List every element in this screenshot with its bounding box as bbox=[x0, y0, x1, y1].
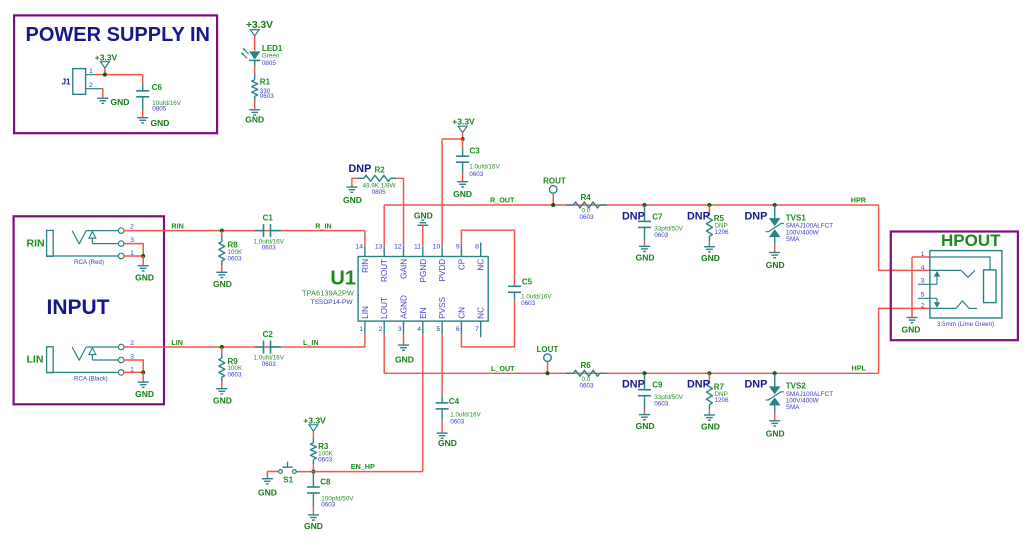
wire PVDD rail bbox=[442, 139, 463, 246]
ground (R7) bbox=[704, 414, 715, 416]
svg-text:DNP: DNP bbox=[687, 379, 710, 391]
jack pin 3 stub bbox=[918, 283, 937, 285]
svg-text:4: 4 bbox=[921, 265, 925, 272]
svg-text:C5: C5 bbox=[522, 278, 533, 287]
svg-text:GND: GND bbox=[135, 389, 154, 399]
ground (C8) bbox=[308, 514, 319, 516]
wire HPR to jack pin 4 bbox=[879, 205, 930, 270]
svg-text:GND: GND bbox=[304, 521, 323, 531]
svg-text:0603: 0603 bbox=[580, 214, 595, 221]
svg-text:LIN: LIN bbox=[171, 338, 183, 347]
wire TVS2 to ground bbox=[774, 413, 776, 420]
hpout box bbox=[891, 232, 1018, 341]
wire LIN pin1 to junction bbox=[124, 371, 143, 373]
wire junction to ground (RIN) bbox=[142, 256, 144, 265]
U1 pin 4 (EN) stub bbox=[422, 321, 424, 334]
svg-text:1.0ufd/16V: 1.0ufd/16V bbox=[469, 164, 500, 171]
RCA jack RIN bbox=[47, 230, 54, 256]
ground (TVS1) bbox=[769, 252, 780, 254]
wire C3 to ground bbox=[462, 174, 464, 181]
svg-text:0603: 0603 bbox=[321, 502, 336, 509]
capacitor C6 bbox=[142, 75, 144, 84]
capacitor C8 bbox=[312, 472, 314, 487]
ground (AGND) bbox=[398, 344, 409, 346]
svg-text:DNP: DNP bbox=[622, 210, 645, 222]
svg-text:GND: GND bbox=[636, 253, 655, 263]
svg-text:POWER SUPPLY IN: POWER SUPPLY IN bbox=[26, 24, 211, 46]
resistor R8 bbox=[221, 231, 223, 237]
node EN_HP junction bbox=[311, 470, 315, 474]
wire C4 to ground bbox=[441, 420, 443, 433]
wire J1 pin2 to ground bbox=[102, 89, 103, 98]
U1 pin 3 (AGND) stub bbox=[403, 321, 405, 334]
svg-text:LIN: LIN bbox=[27, 354, 44, 366]
wire R7 to ground bbox=[708, 409, 710, 414]
node RIN ground junction bbox=[141, 254, 145, 258]
svg-text:GND: GND bbox=[343, 195, 362, 205]
resistor R2 (DNP) bbox=[352, 178, 358, 186]
wire C7 to ground bbox=[644, 241, 646, 246]
switch S1 bbox=[279, 470, 283, 474]
svg-text:GND: GND bbox=[414, 210, 433, 220]
svg-text:ROUT: ROUT bbox=[380, 259, 389, 282]
node ROUT junction bbox=[551, 203, 555, 207]
svg-text:GND: GND bbox=[111, 97, 130, 107]
svg-text:GND: GND bbox=[766, 260, 785, 270]
svg-text:NC: NC bbox=[477, 307, 486, 319]
node TVS2 junction bbox=[773, 371, 777, 375]
jack pin 4 tip contact bbox=[930, 269, 961, 271]
jack pin 1 wire bbox=[912, 256, 930, 258]
svg-text:Green: Green bbox=[262, 53, 280, 60]
svg-text:1206: 1206 bbox=[715, 229, 730, 236]
svg-text:C3: C3 bbox=[470, 146, 481, 155]
J1 pin 2 bbox=[86, 88, 102, 90]
svg-text:+3.3V: +3.3V bbox=[452, 116, 475, 126]
svg-text:PGND: PGND bbox=[419, 259, 428, 283]
ground (RIN) bbox=[138, 265, 149, 267]
node R9 junction bbox=[220, 345, 224, 349]
svg-text:GND: GND bbox=[151, 118, 170, 128]
node PVDD junction bbox=[461, 137, 465, 141]
svg-text:GND: GND bbox=[701, 421, 720, 431]
svg-text:GND: GND bbox=[902, 324, 921, 334]
ground (C9) bbox=[639, 414, 650, 416]
wire R2 to pin 12 GAIN bbox=[397, 178, 404, 246]
U1 pin 8 (NC) stub bbox=[480, 243, 482, 257]
ground (C7) bbox=[639, 245, 650, 247]
svg-text:GND: GND bbox=[213, 279, 232, 289]
ground (LIN) bbox=[138, 381, 149, 383]
wire RIN net bbox=[124, 230, 365, 232]
svg-text:2: 2 bbox=[130, 224, 134, 231]
svg-text:2: 2 bbox=[130, 340, 134, 347]
capacitor C9 (DNP) bbox=[644, 373, 646, 389]
wire AGND to ground bbox=[403, 334, 405, 344]
node R8 junction bbox=[220, 229, 224, 233]
wire L_OUT net bbox=[384, 372, 878, 374]
svg-text:0603: 0603 bbox=[521, 300, 536, 307]
J1 pin 1 bbox=[86, 74, 96, 76]
svg-text:14: 14 bbox=[356, 244, 364, 251]
U1 pin 11 (PGND) stub bbox=[422, 246, 424, 256]
wire R3 to EN_HP node bbox=[312, 464, 314, 472]
wire CP to C5 bbox=[461, 230, 514, 286]
svg-text:0805: 0805 bbox=[152, 106, 167, 113]
ground (R9) bbox=[216, 388, 227, 390]
svg-text:C1: C1 bbox=[263, 213, 274, 222]
svg-text:0603: 0603 bbox=[450, 419, 465, 426]
U1 pin 5 (PVSS) stub bbox=[441, 321, 443, 334]
svg-text:TSSOP14-PW: TSSOP14-PW bbox=[311, 299, 354, 306]
svg-text:RIN: RIN bbox=[171, 221, 183, 230]
connector J1 bbox=[73, 69, 86, 95]
resistor R6 bbox=[566, 372, 573, 374]
svg-text:ROUT: ROUT bbox=[543, 176, 566, 185]
jack pin 2 ring contact bbox=[930, 307, 956, 309]
headphone jack J2 body bbox=[930, 251, 1002, 318]
RIN jack pin 3 bbox=[118, 241, 124, 247]
svg-text:EN: EN bbox=[419, 307, 428, 318]
svg-text:0603: 0603 bbox=[262, 361, 277, 368]
svg-text:DNP: DNP bbox=[622, 379, 645, 391]
svg-text:TVS1: TVS1 bbox=[786, 213, 807, 222]
svg-text:3: 3 bbox=[921, 278, 925, 285]
svg-text:DNP: DNP bbox=[349, 163, 372, 175]
svg-text:C8: C8 bbox=[320, 478, 331, 487]
wire S1 to ground bbox=[267, 472, 278, 479]
svg-text:+3.3V: +3.3V bbox=[303, 416, 326, 426]
svg-text:10: 10 bbox=[433, 244, 441, 251]
svg-text:GND: GND bbox=[701, 253, 720, 263]
svg-text:LOUT: LOUT bbox=[537, 345, 559, 354]
svg-text:1: 1 bbox=[359, 326, 363, 333]
svg-text:GND: GND bbox=[245, 115, 264, 125]
jack pin 5 stub bbox=[918, 297, 937, 299]
svg-text:DNP: DNP bbox=[745, 379, 768, 391]
svg-text:2: 2 bbox=[379, 326, 383, 333]
wire +3.3V to R3 bbox=[312, 431, 314, 438]
U1 pin 14 (RIN) stub bbox=[364, 246, 366, 256]
capacitor C2 bbox=[255, 346, 264, 348]
wire R5 to ground bbox=[708, 241, 710, 246]
jack pin 3 arrow bbox=[936, 277, 938, 285]
resistor R1 bbox=[252, 80, 258, 97]
ground (R1) bbox=[249, 109, 260, 111]
LED D1 LED1 bbox=[249, 51, 260, 59]
node LIN ground junction bbox=[141, 370, 145, 374]
svg-text:7: 7 bbox=[475, 326, 479, 333]
power supply in box bbox=[14, 15, 217, 133]
svg-text:1206: 1206 bbox=[715, 397, 730, 404]
ground (C4) bbox=[437, 432, 448, 434]
svg-text:J1: J1 bbox=[62, 78, 71, 87]
wire R_IN into pin 14 bbox=[364, 231, 366, 247]
svg-text:L_IN: L_IN bbox=[303, 338, 319, 347]
svg-text:0603: 0603 bbox=[654, 401, 669, 408]
svg-text:PVSS: PVSS bbox=[438, 296, 447, 318]
ground (R8) bbox=[216, 271, 227, 273]
RCA jack LIN bbox=[47, 347, 54, 373]
node R5 junction bbox=[707, 203, 711, 207]
jack pin 5 arrow bbox=[936, 298, 938, 302]
U1 pin 1 (LIN) stub bbox=[364, 321, 366, 334]
wire R1 to ground bbox=[254, 101, 256, 110]
RIN jack pin 1 bbox=[118, 253, 124, 259]
wire R_OUT net bbox=[384, 204, 878, 206]
wire EN_HP net bbox=[296, 471, 423, 473]
wire TVS1 to ground bbox=[774, 245, 776, 252]
U1 pin 12 (GAIN) stub bbox=[403, 246, 405, 256]
U1 pin 9 (CP) stub bbox=[460, 246, 462, 256]
node C7 junction bbox=[643, 203, 647, 207]
svg-text:SMA: SMA bbox=[786, 236, 800, 243]
svg-text:5: 5 bbox=[437, 326, 441, 333]
capacitor C1 bbox=[255, 230, 264, 232]
svg-text:R4: R4 bbox=[581, 193, 592, 202]
resistor R4 bbox=[566, 204, 573, 206]
svg-text:12: 12 bbox=[394, 244, 402, 251]
capacitor C7 (DNP) bbox=[644, 205, 646, 221]
wire PVSS to C4 bbox=[441, 334, 443, 395]
TVS diode TVS1 (DNP) bbox=[774, 205, 776, 218]
wire LOUT pin 2 down bbox=[383, 334, 385, 373]
svg-text:1: 1 bbox=[89, 68, 93, 75]
wire LED1 to R1 bbox=[254, 60, 256, 66]
RIN jack pin 2 bbox=[118, 228, 124, 234]
wire PGND to ground bbox=[422, 225, 424, 246]
ground (C6) bbox=[137, 117, 148, 119]
capacitor C4 bbox=[441, 395, 443, 403]
node TVS1 junction bbox=[773, 203, 777, 207]
ground (C3) bbox=[457, 181, 468, 183]
ground (HPOUT) bbox=[907, 317, 918, 319]
svg-text:GND: GND bbox=[453, 189, 472, 199]
svg-text:RCA (Red): RCA (Red) bbox=[74, 259, 104, 266]
svg-text:1: 1 bbox=[921, 251, 925, 258]
wire +3.3V to node bbox=[104, 68, 106, 75]
capacitor C5 bbox=[514, 285, 516, 287]
wire ROUT pin 13 up bbox=[383, 205, 385, 246]
svg-text:13: 13 bbox=[375, 244, 383, 251]
wire L_IN into pin 1 bbox=[364, 334, 366, 347]
svg-text:0603: 0603 bbox=[580, 383, 595, 390]
resistor R3 bbox=[312, 439, 314, 443]
wire LOUT testpoint stub bbox=[547, 362, 549, 374]
svg-text:GND: GND bbox=[395, 355, 414, 365]
svg-text:C7: C7 bbox=[652, 212, 663, 221]
svg-text:AGND: AGND bbox=[400, 295, 409, 319]
svg-text:0805: 0805 bbox=[372, 189, 387, 196]
svg-text:HPR: HPR bbox=[851, 196, 867, 205]
svg-text:6: 6 bbox=[456, 326, 460, 333]
wire J1 pin1 to C6 bbox=[95, 74, 143, 76]
svg-text:C2: C2 bbox=[263, 330, 274, 339]
wire EN_HP to pin 4 EN bbox=[422, 334, 424, 471]
svg-text:11: 11 bbox=[414, 244, 421, 251]
input box bbox=[14, 216, 164, 404]
svg-text:RIN: RIN bbox=[361, 259, 370, 273]
ground (S1) bbox=[262, 478, 273, 480]
svg-text:R_IN: R_IN bbox=[315, 221, 331, 230]
U1 pin 7 (NC) stub bbox=[480, 321, 482, 337]
U1 pin 2 (LOUT) stub bbox=[383, 321, 385, 334]
ground (R2) bbox=[346, 186, 357, 188]
svg-text:0603: 0603 bbox=[318, 456, 333, 463]
svg-text:RIN: RIN bbox=[27, 237, 45, 249]
jack sleeve contact bbox=[984, 270, 997, 303]
wire HPL to jack pin 2 bbox=[879, 308, 930, 373]
svg-text:R_OUT: R_OUT bbox=[490, 196, 515, 205]
svg-text:3.5mm (Lime Green): 3.5mm (Lime Green) bbox=[937, 321, 994, 328]
LIN jack pin 2 bbox=[118, 344, 124, 350]
LIN jack pin 3 bbox=[118, 357, 124, 363]
svg-text:CP: CP bbox=[457, 258, 466, 270]
svg-text:R6: R6 bbox=[581, 361, 592, 370]
svg-text:GND: GND bbox=[258, 487, 277, 497]
resistor R5 (DNP) bbox=[708, 205, 710, 211]
svg-text:R1: R1 bbox=[260, 78, 271, 87]
svg-text:L_OUT: L_OUT bbox=[491, 364, 515, 373]
svg-text:GAIN: GAIN bbox=[400, 259, 409, 279]
ground (TVS2) bbox=[769, 420, 780, 422]
capacitor C3 bbox=[462, 139, 464, 148]
svg-text:S1: S1 bbox=[283, 476, 293, 485]
svg-text:R2: R2 bbox=[375, 166, 386, 175]
wire CN to C5 bbox=[461, 300, 514, 347]
U1 pin 6 (CN) stub bbox=[460, 321, 462, 334]
wire +3.3V node bbox=[462, 133, 464, 139]
wire junction to ground (LIN) bbox=[142, 372, 144, 381]
svg-text:SMA: SMA bbox=[786, 404, 800, 411]
svg-text:0805: 0805 bbox=[262, 60, 277, 67]
wire LIN pin3 to ground bbox=[124, 360, 143, 372]
wire C9 to ground bbox=[644, 409, 646, 414]
svg-text:GND: GND bbox=[766, 428, 785, 438]
svg-text:0603: 0603 bbox=[228, 255, 243, 262]
wire R8 to ground bbox=[221, 266, 223, 272]
svg-text:4: 4 bbox=[417, 326, 421, 333]
svg-text:TVS2: TVS2 bbox=[786, 382, 807, 391]
svg-text:8: 8 bbox=[475, 244, 479, 251]
svg-text:0603: 0603 bbox=[262, 245, 277, 252]
svg-text:HPOUT: HPOUT bbox=[941, 231, 1001, 250]
svg-text:PVDD: PVDD bbox=[438, 259, 447, 282]
svg-text:5: 5 bbox=[921, 292, 925, 299]
svg-text:2: 2 bbox=[89, 82, 93, 89]
svg-text:0603: 0603 bbox=[260, 93, 275, 100]
svg-text:0603: 0603 bbox=[228, 372, 243, 379]
resistor R9 bbox=[221, 347, 223, 353]
svg-text:9: 9 bbox=[456, 244, 460, 251]
wire RIN pin1 to junction bbox=[124, 255, 143, 257]
svg-text:EN_HP: EN_HP bbox=[351, 462, 375, 471]
svg-text:C9: C9 bbox=[652, 381, 663, 390]
svg-text:0603: 0603 bbox=[654, 232, 669, 239]
svg-text:1.0ufd/16V: 1.0ufd/16V bbox=[450, 412, 481, 419]
svg-text:LIN: LIN bbox=[361, 306, 370, 319]
svg-text:CN: CN bbox=[457, 307, 466, 319]
svg-text:0603: 0603 bbox=[469, 171, 484, 178]
ground (J1 pin2) bbox=[97, 97, 108, 99]
svg-text:NC: NC bbox=[477, 259, 486, 271]
wire ROUT testpoint stub bbox=[552, 193, 554, 205]
wire +3.3V to LED1 bbox=[254, 36, 256, 51]
wire C8 to ground bbox=[312, 507, 314, 514]
svg-text:C6: C6 bbox=[152, 83, 163, 92]
node J1 pin1 junction bbox=[103, 73, 107, 77]
svg-text:HPL: HPL bbox=[852, 364, 867, 373]
svg-text:U1: U1 bbox=[330, 268, 356, 290]
svg-text:DNP: DNP bbox=[687, 210, 710, 222]
svg-text:C4: C4 bbox=[449, 397, 460, 406]
LIN jack pin 1 bbox=[118, 370, 124, 376]
node C9 junction bbox=[643, 371, 647, 375]
svg-text:INPUT: INPUT bbox=[47, 296, 110, 319]
svg-text:+3.3V: +3.3V bbox=[95, 52, 118, 62]
svg-text:RCA (Black): RCA (Black) bbox=[74, 376, 108, 383]
svg-text:TPA6139A2PW: TPA6139A2PW bbox=[302, 288, 355, 297]
svg-text:GND: GND bbox=[636, 421, 655, 431]
svg-text:GND: GND bbox=[135, 273, 154, 283]
wire LIN net bbox=[124, 346, 365, 348]
svg-text:3: 3 bbox=[398, 326, 402, 333]
op-amp U1 TPA6139A2PW body bbox=[358, 257, 488, 322]
resistor R7 (DNP) bbox=[708, 373, 710, 379]
svg-text:GND: GND bbox=[438, 438, 457, 448]
wire RIN pin3 to ground bbox=[124, 244, 143, 256]
wire C6 to ground bbox=[142, 111, 144, 118]
U1 pin 13 (ROUT) stub bbox=[383, 246, 385, 256]
wire R9 to ground bbox=[221, 382, 223, 388]
svg-text:DNP: DNP bbox=[745, 210, 768, 222]
svg-text:GND: GND bbox=[213, 395, 232, 405]
svg-text:LOUT: LOUT bbox=[380, 297, 389, 319]
U1 pin 10 (PVDD) stub bbox=[441, 246, 443, 256]
node LOUT junction bbox=[546, 371, 550, 375]
TVS diode TVS2 (DNP) bbox=[774, 373, 776, 386]
node R7 junction bbox=[707, 371, 711, 375]
svg-text:2: 2 bbox=[921, 302, 925, 309]
ground (R5) bbox=[704, 246, 715, 248]
wire jack pin1 to ground bbox=[911, 257, 913, 317]
